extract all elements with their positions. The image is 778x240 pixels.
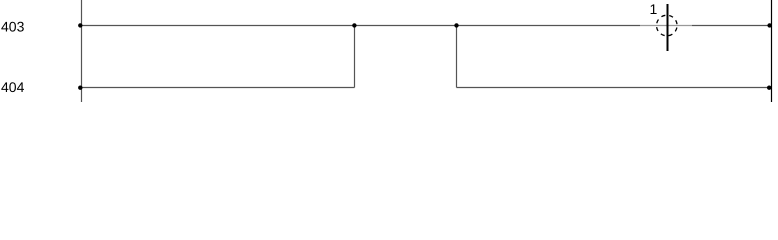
junction dot: right rail / rung 404: [767, 86, 771, 90]
svg-text:404: 404: [1, 79, 25, 95]
coil symbol: vertical stroke through dashed circle: [667, 4, 669, 51]
junction dot: right rail / rung 403: [767, 23, 771, 27]
wire: rung 404 horizontal, left segment: [81, 87, 355, 89]
wire: rung 404 horizontal, right segment: [457, 87, 772, 89]
wire: branch drop from rung 403 to rung 404, left: [354, 26, 356, 88]
wire: rung 403 segment through symbol (light gray link): [640, 25, 692, 27]
junction dot: branch 1 / rung 403: [352, 23, 356, 27]
wire: right power rail (vertical bus): [771, 0, 773, 102]
wire: branch drop from rung 403 to rung 404, right: [456, 26, 458, 88]
junction dot: branch 2 / rung 403: [454, 23, 458, 27]
wire: left power rail (vertical bus): [81, 0, 83, 102]
svg-text:1: 1: [650, 1, 658, 17]
wire: rung 403 horizontal, left section: [81, 25, 640, 27]
svg-text:403: 403: [1, 19, 25, 35]
wire: rung 403 horizontal, right section: [692, 25, 771, 27]
coil symbol: dashed circle: [657, 15, 678, 36]
junction dot: left rail / rung 404: [78, 86, 82, 90]
junction dot: left rail / rung 403: [78, 23, 82, 27]
